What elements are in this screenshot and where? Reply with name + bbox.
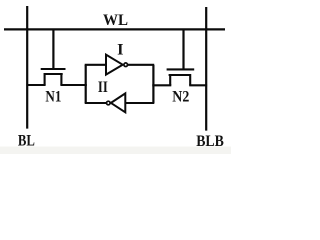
transistor N2 channel bar [169,74,191,76]
wire BL to N1 source [26,84,45,86]
svg-text:N1: N1 [45,86,61,105]
inverter I output bubble [124,63,128,67]
wire WL rail [4,28,225,30]
bottom shadow band [0,147,231,155]
wire node QB to N2 source [152,84,171,86]
wire N1 drain to node Q [60,84,86,86]
transistor N2 drain leg [189,74,191,85]
wire node Q vertical (loop left) [85,65,87,103]
wire node Q to inverter I input [85,64,106,66]
wire N2 gate stem from WL [182,30,184,70]
wire N1 gate stem from WL [52,30,54,70]
inverter II triangle [111,93,125,112]
wire inverter I output to node QB [128,64,154,66]
wire BLB vertical [205,7,207,131]
inverter II output bubble [107,101,111,105]
wire node QB vertical (loop right) [152,65,154,103]
wire inverter II output to node Q [85,102,106,104]
wire BL vertical [26,6,28,129]
transistor N2 gate bar [167,68,195,70]
transistor N1 source leg [44,73,46,85]
svg-text:I: I [117,39,123,58]
svg-text:BLB: BLB [196,133,224,150]
svg-text:WL: WL [103,12,128,29]
inverter I triangle [106,55,123,75]
svg-text:BL: BL [18,132,35,149]
wire N2 drain to BLB [189,84,207,86]
transistor N1 channel bar [44,73,63,75]
transistor N1 gate bar [41,68,66,70]
transistor N2 source leg [169,74,171,85]
svg-text:N2: N2 [172,86,189,105]
transistor N1 drain leg [60,73,62,85]
svg-text:II: II [98,77,108,96]
wire node QB to inverter II input [125,102,154,104]
